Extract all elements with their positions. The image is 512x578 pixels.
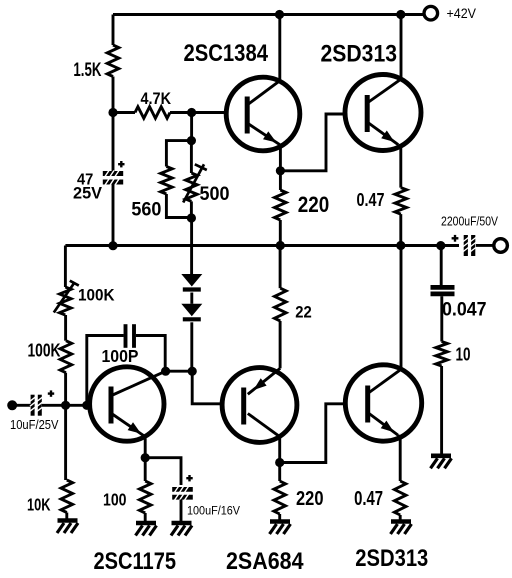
svg-text:10uF/25V: 10uF/25V [10, 418, 59, 432]
svg-text:100K: 100K [28, 339, 61, 360]
svg-text:2SD313: 2SD313 [355, 545, 428, 572]
svg-text:560: 560 [131, 199, 161, 220]
svg-text:2SC1175: 2SC1175 [94, 548, 177, 573]
svg-text:10K: 10K [27, 495, 51, 515]
svg-text:0.047: 0.047 [442, 300, 487, 321]
svg-text:2SD313: 2SD313 [321, 41, 398, 68]
svg-text:100uF/16V: 100uF/16V [187, 506, 240, 518]
svg-text:500: 500 [200, 184, 230, 205]
svg-text:22: 22 [295, 304, 312, 322]
svg-text:10: 10 [456, 345, 471, 365]
svg-text:220: 220 [296, 488, 324, 510]
svg-text:100P: 100P [102, 346, 139, 366]
svg-text:100K: 100K [78, 286, 115, 305]
svg-text:+42V: +42V [447, 5, 477, 21]
svg-text:100: 100 [103, 490, 127, 510]
svg-text:25V: 25V [73, 184, 103, 203]
svg-text:2SC1384: 2SC1384 [184, 40, 269, 67]
svg-text:4.7K: 4.7K [141, 90, 172, 108]
svg-text:0.47: 0.47 [354, 488, 383, 510]
svg-text:2200uF/50V: 2200uF/50V [441, 214, 498, 229]
svg-text:220: 220 [298, 192, 330, 217]
svg-text:1.5K: 1.5K [73, 60, 101, 81]
svg-text:2SA684: 2SA684 [226, 548, 304, 573]
svg-text:0.47: 0.47 [357, 190, 385, 210]
